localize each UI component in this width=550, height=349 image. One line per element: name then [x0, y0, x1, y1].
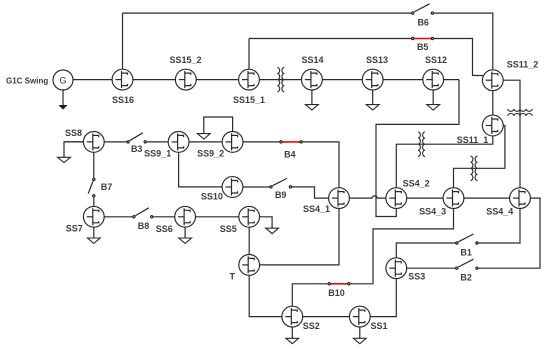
wire row SS8 to B3 [64, 141, 128, 143]
svg-text:SS4_3: SS4_3 [419, 206, 446, 216]
bus SS4_4 [510, 188, 531, 209]
wire SS8 to B7 [93, 142, 95, 180]
bus SS1 [349, 306, 370, 327]
svg-text:SS15_1: SS15_1 [233, 95, 265, 105]
bus SS5 [239, 206, 260, 227]
svg-text:SS1: SS1 [370, 321, 387, 331]
wire SS12 ground stub [432, 90, 434, 105]
bus SS6 [175, 206, 196, 227]
svg-text:SS11_2: SS11_2 [507, 59, 539, 69]
bus SS14 [302, 69, 323, 90]
svg-text:B3: B3 [131, 144, 143, 154]
svg-text:SS4_4: SS4_4 [486, 206, 513, 216]
bus SS8 [83, 132, 104, 153]
wire SS9_1 drop to SS10 [179, 142, 233, 187]
ground SS8 ground [58, 157, 71, 162]
bus SS9_1 [168, 132, 189, 153]
svg-text:SS16: SS16 [112, 95, 134, 105]
bus SS7 [83, 206, 104, 227]
wire main 138kV rail G..SS12 [63, 79, 459, 81]
closed breaker link B10 (red) [329, 283, 349, 285]
svg-text:SS8: SS8 [65, 128, 82, 138]
breaker B5 contacts [412, 37, 414, 39]
svg-text:SS11_1: SS11_1 [457, 135, 489, 145]
wire SS7 ground stub [93, 227, 95, 238]
ground SS2 ground [286, 338, 299, 343]
svg-text:SS13: SS13 [366, 55, 388, 65]
svg-text:SS7: SS7 [66, 224, 83, 234]
svg-text:B4: B4 [284, 150, 296, 160]
svg-text:SS5: SS5 [220, 224, 237, 234]
wire SS2 top to B10 [292, 284, 329, 317]
breaker B6 (open) contacts [414, 4, 429, 12]
wire B5 to SS11_2 [432, 39, 483, 76]
breaker B8 (open) contacts [135, 208, 149, 216]
bus SS15_2 [175, 69, 196, 90]
transformer XF2 (SS4_2-SS11_1) [418, 132, 425, 156]
bus SS2 [282, 306, 303, 327]
wire SS9_2 stub loop [204, 117, 233, 142]
breaker B1 (open) contacts [458, 234, 473, 242]
wire top rail from SS16 to B6 [123, 12, 413, 14]
svg-text:B10: B10 [328, 288, 345, 298]
svg-text:SS12: SS12 [425, 55, 447, 65]
wire SS15_1 riser [248, 39, 250, 80]
wire SS2 to SS1 [292, 316, 360, 318]
bus SS13 [362, 69, 383, 90]
wire B7 to SS7 [93, 196, 95, 217]
svg-text:SS4_2: SS4_2 [403, 179, 430, 189]
wire SS8 ground lead [64, 142, 84, 157]
generator G1C Swing [53, 70, 73, 90]
svg-text:SS6: SS6 [156, 224, 173, 234]
bus SS9_2 [222, 132, 243, 153]
wire B8 to SS5 [152, 216, 250, 218]
svg-text:T: T [230, 271, 236, 281]
svg-text:SS15_2: SS15_2 [169, 55, 201, 65]
svg-text:B5: B5 [417, 42, 429, 52]
breaker B3 (open) contacts [130, 133, 143, 141]
wire B9 to SS4_1 [290, 187, 339, 198]
svg-text:SS9_1: SS9_1 [144, 148, 171, 158]
bus SS11_2 [482, 70, 503, 91]
generator G feeder arrow [62, 90, 64, 106]
svg-text:G1C Swing: G1C Swing [6, 76, 48, 85]
svg-text:SS2: SS2 [303, 321, 320, 331]
wire T to SS4_1 bottom [249, 198, 339, 265]
wire B5 rail from SS15_1 [249, 38, 413, 40]
closed breaker link B5 (red) [413, 38, 433, 40]
wire SS4 rail with crossover hop [339, 196, 540, 268]
closed breaker link B4 (red) [281, 141, 301, 143]
transformer XF1 (SS15_1-SS14) [277, 67, 284, 91]
wire row B3 to B4 [145, 141, 281, 143]
breaker B9 (open) contacts [273, 178, 287, 185]
bus SS16 [112, 69, 133, 90]
wire B1 to SS4_4 bottom [477, 198, 520, 243]
svg-text:B6: B6 [417, 18, 429, 28]
svg-text:SS4_1: SS4_1 [303, 204, 330, 214]
bus SS3 [386, 258, 407, 279]
bus SS11_1 [482, 115, 503, 136]
wire SS6 ground stub [184, 227, 186, 238]
wire SS13 ground stub [372, 90, 374, 105]
wire SS5 to T link [248, 217, 250, 265]
breaker B7 (open) contacts [88, 181, 93, 193]
svg-text:G: G [59, 75, 66, 85]
ground SS7 ground [87, 238, 100, 243]
wire SS1 ground stub [359, 327, 361, 338]
wire SS3 top to B1 [396, 243, 457, 268]
bus SS4_2 [386, 188, 407, 209]
bus SS4_1 [329, 188, 350, 209]
wire SS11_2 to SS11_1 link [492, 80, 494, 125]
wire B10 to SS4_3 bottom [349, 198, 454, 284]
wire B4 to SS4_1 top [301, 142, 339, 198]
ground SS9_2 stub terminal [197, 134, 210, 139]
wire SS11_2 right to SS4_4 riser [503, 80, 520, 198]
wire SS11_1 right to SS4_3 top [454, 126, 505, 199]
svg-text:SS14: SS14 [301, 55, 323, 65]
transformer XF3 (SS11_1-SS4_3) [471, 156, 478, 180]
wire SS10 to B9 [233, 186, 272, 188]
svg-text:B7: B7 [101, 182, 113, 192]
ground SS14 ground [306, 105, 319, 110]
wire SS7 to B8 [94, 216, 134, 218]
breaker B2 (open) contacts [458, 259, 473, 267]
bus SS15_1 [239, 69, 260, 90]
wire top rail B6 to SS11_2 down [432, 13, 492, 80]
ground SS5 ground [266, 228, 279, 233]
svg-text:SS9_2: SS9_2 [197, 148, 224, 158]
wire SS14 ground stub [311, 90, 313, 105]
wire SS16 riser [122, 13, 124, 80]
wire T to SS2 [249, 265, 292, 317]
breaker B10 contacts [328, 283, 330, 285]
bus T [239, 255, 260, 276]
svg-text:B9: B9 [275, 190, 287, 200]
ground SS12 ground [427, 105, 440, 110]
transformer XF4 (SS11_2-SS4_4) [508, 109, 532, 116]
svg-text:SS10: SS10 [201, 191, 223, 201]
bus SS4_3 [443, 188, 464, 209]
ground SS13 ground [366, 105, 379, 110]
wire SS5 ground lead [249, 217, 272, 228]
wire SS12 to SS4_2 path [376, 80, 459, 217]
bus SS10 [222, 177, 243, 198]
svg-text:B2: B2 [460, 273, 472, 283]
wire SS4_2 top to SS11_1 bottom [396, 126, 493, 199]
svg-text:SS3: SS3 [408, 272, 425, 282]
wire SS3 right to B2 [407, 267, 457, 269]
svg-text:B1: B1 [460, 248, 472, 258]
wire SS1 to SS3 bottom [370, 268, 396, 316]
bus SS12 [423, 69, 444, 90]
ground SS1 ground [353, 338, 366, 343]
ground SS6 ground [179, 238, 192, 243]
wire SS2 ground stub [291, 327, 293, 338]
breaker B4 contacts [280, 141, 282, 143]
svg-text:B8: B8 [138, 221, 150, 231]
